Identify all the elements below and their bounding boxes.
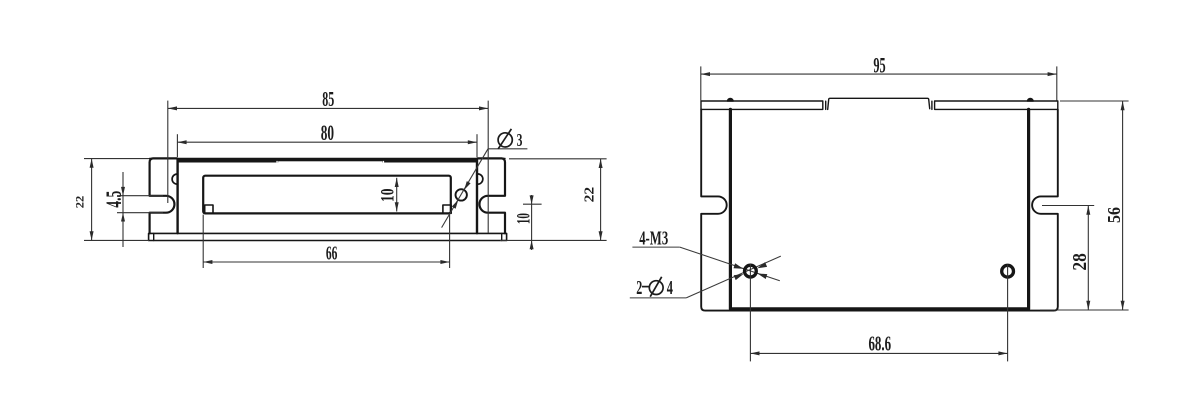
label 2-d4 : dash xyxy=(642,286,649,288)
top cover notch left xyxy=(276,161,277,163)
flange tick left xyxy=(825,101,827,109)
svg-text:10: 10 xyxy=(377,189,398,203)
dim 56 line xyxy=(1122,101,1124,310)
inner rect corner square right xyxy=(443,205,451,213)
dim 22 left arrows xyxy=(90,159,94,168)
dim 85 extension lines xyxy=(167,101,169,203)
label 2-d4 : diameter glyph xyxy=(649,277,663,297)
svg-text:68.6: 68.6 xyxy=(868,332,891,356)
d3 leader arrows xyxy=(464,181,471,190)
right view dimension arrows xyxy=(701,72,1125,355)
top cover recess (middle thinner) xyxy=(278,161,382,163)
dim 28 extension line xyxy=(1042,205,1094,207)
leader line for d3 xyxy=(442,149,488,228)
base plate xyxy=(149,233,507,240)
dim 22 right extension lines xyxy=(509,158,607,160)
dim 66 extension lines xyxy=(202,215,204,268)
svg-text:66: 66 xyxy=(326,243,338,265)
4-M3 leader underline xyxy=(632,246,679,248)
flange tick right xyxy=(931,101,933,109)
dim 10 inner arrows xyxy=(395,178,399,187)
dim 4.5 arrows (outside) xyxy=(121,187,125,196)
4-M3 leader slant through hole xyxy=(680,247,780,281)
top flange bar left xyxy=(701,101,823,109)
svg-text:4-M3: 4-M3 xyxy=(639,227,668,249)
leader arrowheads at screw hole xyxy=(734,262,768,280)
dim 10 right line xyxy=(531,195,533,250)
svg-text:56: 56 xyxy=(1104,207,1124,223)
dim 95 extension lines xyxy=(700,66,702,100)
2-d4 ray through hole xyxy=(686,256,781,298)
dim 95 line xyxy=(701,73,1057,75)
right ear outline with mounting slot xyxy=(477,158,505,233)
dim 10 right arrows (outside) xyxy=(530,195,534,204)
label d3 : diameter glyph xyxy=(498,129,512,149)
screw bump right xyxy=(1027,98,1033,101)
top cover notch right xyxy=(383,161,384,163)
dim 28 arrows xyxy=(1086,206,1090,215)
base plate tick left xyxy=(153,233,155,240)
inner body thick walls and bottom xyxy=(730,109,1028,309)
dim 95 arrows xyxy=(701,72,710,76)
dim 80 arrows xyxy=(177,140,186,144)
dim 80 line xyxy=(177,141,477,143)
svg-text:22: 22 xyxy=(74,195,86,208)
inner recessed rectangle xyxy=(203,176,451,214)
svg-text:4.5: 4.5 xyxy=(101,191,126,208)
svg-text:2: 2 xyxy=(636,277,642,299)
base plate tick right xyxy=(501,233,503,240)
left inner wall xyxy=(176,159,178,233)
dim 22 left line xyxy=(91,159,93,241)
dim 68.6 line xyxy=(750,352,1007,354)
right wall screw semicircle xyxy=(478,174,483,184)
inner rect corner square left xyxy=(205,205,213,213)
dim 4.5 line xyxy=(122,172,124,247)
dim 56 arrows xyxy=(1121,101,1125,110)
dim 80 extension lines xyxy=(176,134,178,157)
dim 10 right stub extension xyxy=(523,203,542,205)
dim 10 inner line xyxy=(396,178,398,212)
outer profile with side notches and bottom xyxy=(701,109,1058,310)
svg-text:22: 22 xyxy=(582,187,597,203)
top flange bar right xyxy=(935,101,1058,109)
svg-text:28: 28 xyxy=(1070,253,1091,271)
svg-text:80: 80 xyxy=(321,120,334,145)
top cover thick band xyxy=(177,158,477,162)
right inner wall xyxy=(476,159,478,233)
dim 28 line xyxy=(1087,206,1089,311)
top middle plateau xyxy=(828,98,930,109)
svg-text:95: 95 xyxy=(873,52,885,77)
svg-text:10: 10 xyxy=(513,213,534,224)
hole circle (d3) xyxy=(456,189,467,200)
M3 screw hole left xyxy=(745,265,757,277)
dim 4.5 extension lines xyxy=(117,195,163,197)
dim 66 line xyxy=(203,261,449,263)
screw hole right xyxy=(1002,265,1014,277)
left ear outline with mounting slot xyxy=(150,158,177,233)
2-d4 leader underline xyxy=(630,297,686,299)
dim 68.6 arrows xyxy=(750,351,759,355)
dim 22 right line xyxy=(600,159,602,241)
dim 85 arrows xyxy=(168,106,177,110)
dim 22 right arrows xyxy=(599,159,603,168)
svg-text:85: 85 xyxy=(322,87,334,111)
dim 85 line xyxy=(168,107,488,109)
screw bump left xyxy=(727,98,733,101)
left wall screw semicircle xyxy=(172,174,177,184)
dim 56 extension lines xyxy=(1060,100,1129,102)
arrowheads left view xyxy=(90,106,603,264)
svg-text:3: 3 xyxy=(517,130,523,150)
dim 22 left extension lines xyxy=(84,158,149,160)
top edge thin line xyxy=(150,157,505,159)
svg-text:4: 4 xyxy=(667,277,673,299)
dim 68.6 extension lines xyxy=(749,264,751,361)
dim 66 arrows xyxy=(203,260,212,264)
